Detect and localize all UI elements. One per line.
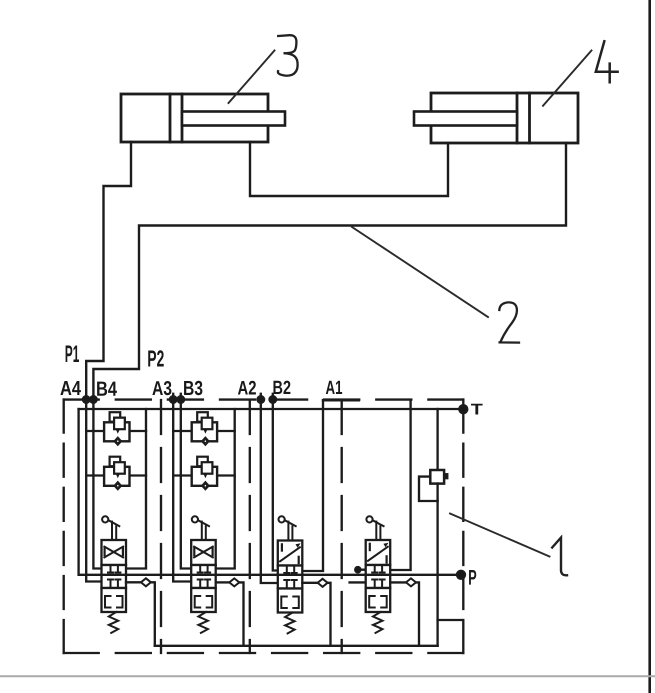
label A4 (60, 381, 81, 395)
label A2 (238, 381, 256, 395)
check row1 line S3 (173, 430, 192, 432)
wire cyl4 cap-side to port B4 (P2 line) (93, 143, 566, 400)
check valve CV1 (S4 row1) (104, 412, 129, 445)
check row2 line S3 (173, 474, 192, 476)
label 4 (596, 41, 618, 82)
valve block dashed border bottom (64, 652, 464, 654)
valve V1 P-line crossing restored (102, 574, 127, 576)
relief valve RV (419, 409, 462, 646)
wire B3 to valve V2 upper-left port (181, 400, 191, 569)
section separator S3/S2 (249, 400, 251, 653)
cylinder 3 (121, 94, 285, 142)
check row1 line S4 (86, 430, 104, 432)
label P2 (148, 350, 164, 366)
label 4 leader (543, 51, 592, 106)
check diamond D4 and drop (390, 578, 419, 645)
scan line bottom (0, 675, 655, 677)
valve V4 P-line crossing restored (366, 574, 391, 576)
stub above A2 (260, 394, 262, 400)
label A3 (152, 381, 171, 395)
wire A2 to valve V3 lower-left port (261, 400, 278, 584)
port dot B4 (90, 396, 97, 403)
label B2 (273, 381, 290, 394)
wire S3 right vertical to valve V2 upper-right port (216, 409, 235, 569)
label 2 leader (352, 227, 488, 317)
port dot A2 (258, 396, 265, 403)
valve block dashed border right (462, 400, 464, 653)
port dot A3 (170, 396, 177, 403)
plug dot (355, 567, 360, 572)
valve block dashed border top (64, 398, 464, 400)
valve V4 lower-left stub (350, 581, 366, 583)
wire A4 to valve V1 lower-left port (86, 400, 101, 582)
label 3 leader (229, 51, 275, 104)
label B4 (97, 382, 117, 396)
wire A1 to valve V3 upper-right port (302, 400, 323, 571)
wire B2 to valve V3 upper-left port (273, 400, 278, 571)
label 3 (278, 35, 298, 76)
spool valve V2 (191, 516, 216, 633)
P return vertical and P line (79, 409, 461, 575)
label P1 (66, 346, 79, 363)
T line (79, 408, 464, 410)
label 1 leader (450, 514, 550, 557)
stub above B3 (180, 394, 182, 400)
spool valve V3 (278, 516, 303, 633)
bottom bus wire (155, 645, 438, 647)
stub above B2 (272, 394, 274, 400)
stub above A3 (172, 394, 174, 400)
section separator S4/S3 (160, 400, 162, 653)
wire cyl3 rod-side to cyl4 rod-side (250, 142, 448, 196)
check valve CV3 (S3 row1) (192, 412, 217, 445)
wire B4 to valve V1 upper-left port (93, 400, 101, 569)
spool valve V4 (366, 516, 391, 633)
port dot A4 (83, 396, 90, 403)
valve V3 P-line crossing restored (278, 574, 303, 576)
valve block dashed border left (63, 400, 65, 653)
check row2 line S4 (86, 474, 104, 476)
check diamond D1 and drop (126, 578, 155, 646)
wire A1 bridge right vertical to valve V4 upper-right port (390, 400, 410, 570)
spool valve V1 (102, 516, 127, 633)
label B3 (184, 381, 202, 395)
label A1 (326, 381, 342, 394)
check valve CV2 (S4 row2) (104, 457, 129, 490)
port dot B3 (178, 396, 185, 403)
label P (469, 570, 476, 585)
valve V2 P-line crossing restored (191, 574, 216, 576)
label T (471, 404, 483, 415)
P port dot (457, 571, 465, 579)
label 1 (552, 538, 567, 576)
section separator S2/S1 (341, 400, 343, 653)
label 2 (499, 302, 519, 342)
wire A3 to valve V2 lower-left port (173, 400, 191, 582)
check diamond D3 and drop (302, 579, 330, 646)
valve V4 upper-left plugged stub (358, 569, 366, 571)
wire S4 right vertical to valve V1 upper-right port (126, 409, 146, 569)
check diamond D2 and drop (216, 578, 244, 645)
T port dot (459, 405, 467, 413)
A1 bridge horizontal (323, 399, 359, 401)
check valve CV4 (S3 row2) (192, 457, 217, 490)
port dot B2 (270, 396, 277, 403)
page edge line right (648, 0, 651, 693)
wire cyl3 cap-side to port A4 (P1 line) (86, 142, 131, 400)
cylinder 4 (414, 93, 578, 143)
